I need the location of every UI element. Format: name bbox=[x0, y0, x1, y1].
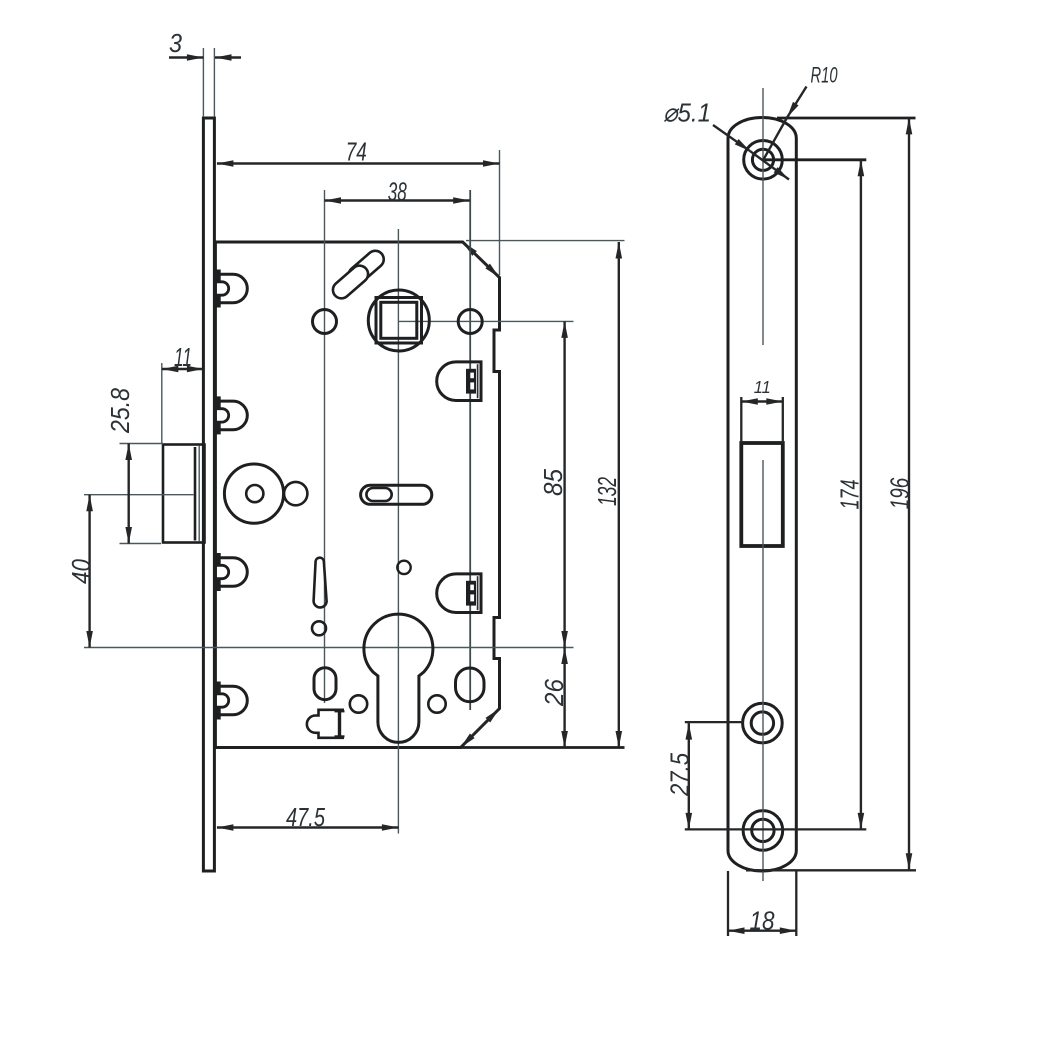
dim 25.8 bbox=[127, 444, 129, 544]
oblong hole left of cylinder bbox=[314, 668, 336, 700]
svg-text:11: 11 bbox=[174, 342, 192, 372]
teardrop slot bbox=[314, 558, 327, 608]
main vertical centerline bbox=[397, 229, 399, 834]
mid screw hole countersink bbox=[743, 703, 783, 743]
screw hole right bbox=[458, 310, 482, 334]
hole left of cylinder bbox=[350, 695, 367, 712]
tilted slot upper bbox=[345, 247, 387, 287]
lever pivot center hole bbox=[246, 485, 263, 502]
svg-text:27.5: 27.5 bbox=[665, 753, 695, 797]
dim 47.5 bbox=[217, 826, 399, 828]
dim 85 bbox=[563, 321, 565, 647]
dim 40 bbox=[88, 495, 90, 648]
cylinder axis extension bbox=[84, 647, 574, 649]
lever pivot washer bbox=[224, 464, 283, 523]
132 extension lines bbox=[466, 240, 625, 242]
strike plate front view bbox=[728, 118, 796, 872]
dim 26 bbox=[563, 648, 565, 748]
svg-text:3: 3 bbox=[169, 28, 182, 58]
bottom screw hole countersink bbox=[743, 811, 783, 851]
latch bolt bbox=[163, 445, 205, 543]
leader dia 5.1 bbox=[713, 125, 750, 151]
svg-text:⌀5.1: ⌀5.1 bbox=[663, 98, 711, 128]
strike plate cutout bbox=[741, 443, 783, 546]
bottom screw hole bbox=[752, 819, 774, 841]
screw hole left bbox=[313, 310, 337, 334]
latch axis extension bbox=[84, 494, 194, 496]
svg-text:25.8: 25.8 bbox=[105, 388, 135, 434]
svg-text:132: 132 bbox=[592, 477, 622, 506]
spindle follower circle bbox=[368, 290, 429, 351]
tilted slot lower bbox=[329, 262, 371, 302]
svg-text:47.5: 47.5 bbox=[286, 802, 325, 832]
faceplate mounting lugs bbox=[215, 270, 247, 720]
plate centerline upper bbox=[762, 88, 764, 345]
retainer clip bbox=[307, 710, 344, 738]
74 right extension bbox=[499, 150, 501, 275]
extensions 11 cutout bbox=[740, 397, 742, 443]
latch width extension bbox=[161, 363, 163, 444]
horizontal slot bbox=[361, 485, 432, 504]
extension bottom 196 bbox=[746, 869, 916, 871]
dim 174 bbox=[860, 160, 862, 830]
centerline left hole column bbox=[324, 190, 326, 703]
hole beside pivot bbox=[284, 482, 307, 505]
extension top 196 bbox=[777, 117, 916, 120]
svg-text:11: 11 bbox=[754, 377, 771, 397]
dim 3 leaders bbox=[169, 56, 203, 58]
spindle square outer bbox=[376, 298, 422, 344]
small hole mid bbox=[397, 561, 410, 574]
svg-text:196: 196 bbox=[885, 477, 915, 509]
svg-text:18: 18 bbox=[750, 905, 775, 935]
horizontal slot inner bbox=[366, 488, 391, 501]
dim 196 bbox=[908, 118, 910, 870]
chamfer arrow top-right bbox=[463, 242, 500, 278]
bolt guide D-shape 2 bbox=[437, 574, 481, 613]
extensions 18 bbox=[727, 871, 729, 936]
bolt guide D-shape 1 bbox=[437, 362, 481, 401]
dim 132 bbox=[618, 242, 620, 748]
faceplate (edge view) bbox=[203, 118, 214, 871]
centerline right hole column bbox=[469, 190, 471, 710]
svg-text:38: 38 bbox=[388, 176, 407, 206]
hole right of cylinder bbox=[428, 695, 445, 712]
extension 27.5 top bbox=[685, 721, 743, 723]
svg-text:74: 74 bbox=[346, 136, 367, 166]
strike plate top hole bbox=[752, 149, 773, 170]
dim 11 cutout bbox=[741, 400, 783, 402]
svg-text:40: 40 bbox=[66, 559, 96, 584]
spindle square inner bbox=[381, 302, 417, 338]
chamfer arrow bottom-right bbox=[461, 709, 500, 748]
euro cylinder hole bbox=[364, 614, 433, 742]
dim 27.5 bbox=[688, 723, 690, 829]
mid screw hole bbox=[751, 712, 773, 734]
dim 38 bbox=[325, 199, 470, 201]
spindle horizontal centerline bbox=[399, 320, 574, 322]
extension top hole 174 bbox=[763, 158, 866, 161]
svg-text:26: 26 bbox=[539, 678, 569, 706]
svg-text:85: 85 bbox=[538, 468, 568, 496]
small hole below teardrop bbox=[312, 621, 326, 635]
leader R10 bbox=[787, 87, 807, 118]
svg-text:174: 174 bbox=[835, 480, 865, 510]
oblong hole right bbox=[456, 668, 485, 702]
strike plate top hole countersink bbox=[744, 141, 783, 180]
extension 27.5/174 bottom bbox=[685, 828, 867, 830]
dim 18 bbox=[728, 930, 796, 932]
svg-text:R10: R10 bbox=[811, 63, 839, 88]
dim 74 bbox=[217, 162, 500, 164]
lock body outline bbox=[215, 242, 499, 748]
dim 11 latch bbox=[162, 368, 204, 370]
plate centerline lower bbox=[762, 460, 764, 881]
plate thickness extension lines bbox=[202, 48, 204, 117]
25.8 extension lines bbox=[120, 443, 164, 445]
